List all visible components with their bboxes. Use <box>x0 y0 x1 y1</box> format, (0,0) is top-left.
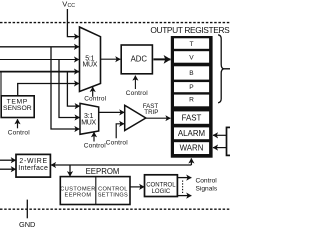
svg-text:GND: GND <box>19 220 35 229</box>
control signals dashed line <box>182 181 184 194</box>
Vcc label <box>62 0 75 9</box>
register WARN <box>174 142 209 154</box>
svg-text:Control: Control <box>8 130 30 137</box>
register ALARM <box>174 127 209 139</box>
pin wire 3 <box>0 71 79 73</box>
svg-text:R: R <box>189 97 194 104</box>
chip boundary bottom (dashed) <box>0 208 230 210</box>
bus wire: registers bottom to 2-wire interface <box>51 158 191 165</box>
alarm mask box (right edge) <box>227 127 236 155</box>
fast trip comparator <box>125 105 146 130</box>
register R <box>174 95 209 107</box>
CONTROL LOGIC box <box>145 175 178 197</box>
svg-text:SETTINGS: SETTINGS <box>98 192 128 198</box>
serial pin arrow 1 <box>0 159 16 161</box>
brace tick to edge <box>224 68 230 70</box>
register T <box>174 38 209 49</box>
svg-text:T: T <box>189 41 193 48</box>
svg-text:B: B <box>189 70 194 77</box>
warn wire <box>213 147 227 149</box>
riser to 3:1 mux input B <box>59 60 80 118</box>
svg-text:WARN: WARN <box>180 143 204 152</box>
register P <box>174 82 209 92</box>
TEMP SENSOR box <box>1 96 34 118</box>
eeprom branch arrow <box>69 165 71 176</box>
temp sensor wire to mux input 5 <box>18 84 79 96</box>
svg-text:MUX: MUX <box>81 120 96 127</box>
TEMP SENSOR control arrow <box>17 119 19 128</box>
svg-text:Control: Control <box>106 140 128 147</box>
svg-text:Control: Control <box>84 143 106 150</box>
svg-text:V: V <box>189 54 194 61</box>
ADC <box>121 45 152 74</box>
svg-text:Control: Control <box>84 95 106 102</box>
5:1 MUX output wire <box>101 58 121 60</box>
register V <box>174 51 209 63</box>
svg-text:CONTROL: CONTROL <box>146 182 176 188</box>
output registers box <box>171 36 213 158</box>
svg-text:TRIP: TRIP <box>144 109 158 116</box>
wire: control settings to control logic <box>130 186 144 188</box>
3:1 MUX <box>80 103 99 134</box>
svg-text:ADC: ADC <box>131 54 148 63</box>
GND stub <box>26 200 28 219</box>
3:1 MUX control arrow <box>93 132 95 141</box>
control signals arrow top <box>177 177 191 179</box>
svg-text:Signals: Signals <box>196 186 218 193</box>
svg-text:SENSOR: SENSOR <box>3 105 32 112</box>
FAST TRIP label <box>143 103 159 116</box>
EEPROM box <box>60 177 130 205</box>
svg-text:EEPROM: EEPROM <box>86 167 120 176</box>
Vcc stub wire <box>67 9 79 37</box>
2-WIRE interface box <box>16 154 50 177</box>
svg-text:CC: CC <box>68 3 76 9</box>
riser to 3:1 mux input C <box>51 47 79 129</box>
svg-text:EEPROM: EEPROM <box>65 192 92 198</box>
3:1 MUX output wire <box>99 111 125 113</box>
svg-text:Control: Control <box>196 177 218 184</box>
ADC control arrow <box>134 76 136 89</box>
pin wire 2 <box>0 59 79 61</box>
svg-text:LOGIC: LOGIC <box>152 189 171 195</box>
control signals arrow bottom <box>177 195 191 197</box>
alarm wire <box>213 134 227 136</box>
5:1 MUX control arrow <box>92 87 94 97</box>
temp sensor wire to pin3 <box>0 72 2 96</box>
pin wire 1 <box>0 46 79 48</box>
Control Signals label <box>196 177 218 192</box>
svg-text:ALARM: ALARM <box>178 129 205 138</box>
serial pin arrow 2 <box>0 168 16 170</box>
svg-text:2-WIRE: 2-WIRE <box>19 158 47 165</box>
brace for T..R registers <box>218 35 224 103</box>
comparator control wire <box>116 124 124 139</box>
register B <box>174 66 209 79</box>
svg-text:Control: Control <box>126 90 148 97</box>
chip boundary top (dashed) <box>0 22 230 24</box>
riser to 3:1 mux input A <box>67 72 79 107</box>
svg-text:P: P <box>189 84 194 91</box>
comparator output wire <box>146 117 171 119</box>
svg-text:OUTPUT REGISTERS: OUTPUT REGISTERS <box>150 25 230 35</box>
svg-text:MUX: MUX <box>82 62 97 69</box>
register FAST <box>174 111 209 123</box>
svg-text:Interface: Interface <box>18 165 48 172</box>
svg-text:FAST: FAST <box>182 114 202 123</box>
ADC output bus arrow <box>153 58 170 60</box>
5:1 MUX <box>80 27 101 92</box>
